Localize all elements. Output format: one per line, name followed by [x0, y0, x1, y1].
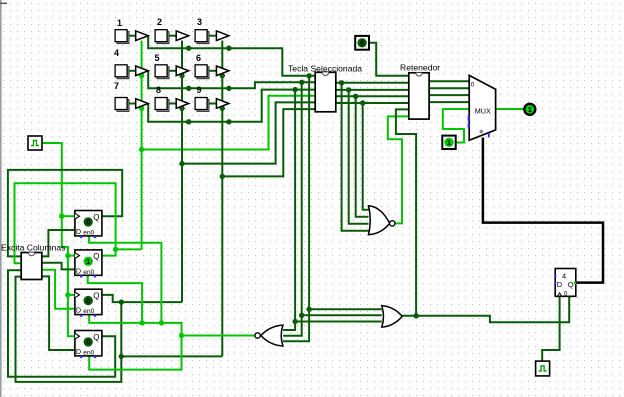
junction col3 tap: [220, 174, 225, 179]
output LED 1: [524, 104, 535, 115]
wire col2 tap to pin5: [182, 102, 315, 163]
register 4-bit: [554, 269, 576, 298]
wire col1 tap to pin4: [142, 96, 316, 150]
wire FF3 Q branch to Excita in4: [16, 277, 122, 382]
button B2: [155, 30, 176, 44]
svg-text:Q: Q: [93, 333, 99, 342]
button B9: [195, 98, 216, 112]
wire clock1 distribution (high): [42, 143, 75, 336]
wire clock to FF1 C: [62, 215, 75, 217]
wire column2 line: [181, 41, 183, 303]
svg-text:0: 0: [86, 296, 90, 305]
button B7: [115, 98, 136, 112]
svg-text:8: 8: [156, 85, 161, 95]
junction V3 tee: [306, 307, 311, 312]
junction OR output: [413, 313, 418, 318]
wire V3 row1 to gates: [283, 76, 309, 342]
MUX floating input stubs (blue): [468, 116, 470, 122]
wire bus2 to NOR2 in3: [349, 90, 369, 224]
wire Excita out2 to FF2 D: [42, 263, 75, 270]
wire NOR2 output to Retenedor load (high): [388, 116, 409, 223]
wire NOR-left output enable net (high): [89, 315, 255, 336]
wire bus4 to NOR2 in1: [363, 103, 369, 210]
junction row3-buffer9: [226, 119, 231, 124]
buffer U9: [216, 99, 229, 109]
wire Excita out1 to FF1 D: [42, 230, 75, 256]
subcircuit Retenedor: [400, 63, 440, 120]
svg-text:Retenedor: Retenedor: [400, 63, 440, 73]
junction FF3 Q branch: [119, 299, 124, 304]
wire enable to FF4 en (high): [89, 336, 181, 370]
svg-text:Q: Q: [93, 292, 99, 301]
wire FF1 Q feedback to Excita in1: [8, 170, 122, 257]
wire register clock from clock2: [542, 296, 559, 361]
wire OR output up to Retenedor pin: [396, 109, 416, 315]
junction bus1 tap: [339, 80, 344, 85]
svg-text:Excita Columnas: Excita Columnas: [1, 243, 65, 253]
wire bus1 to NOR2 in4: [342, 83, 369, 231]
junction clock FF3: [65, 292, 70, 297]
junction enable FF1 branch: [159, 320, 164, 325]
junction col2-buffer8 enable: [179, 106, 184, 111]
button B5: [155, 65, 176, 79]
junction row2-buffer5: [186, 86, 191, 91]
junction row1-buffer2: [186, 46, 191, 51]
wire column3 line: [221, 41, 223, 357]
wire V2 tee to OR gate in2: [302, 314, 382, 316]
svg-text:1: 1: [117, 18, 122, 28]
wire Tecla to Retenedor bus3: [336, 95, 409, 97]
wire pin1 S-route to MUX (high): [443, 109, 469, 143]
buffer U5: [176, 66, 189, 76]
flip-flop FF3: [75, 289, 102, 317]
svg-text:D: D: [76, 306, 81, 315]
junction col1 tap: [139, 147, 144, 152]
svg-text:0: 0: [86, 218, 90, 227]
wire FF2 Q feedback to Excita in2 (high): [15, 183, 116, 263]
buffer U4: [136, 66, 149, 76]
junction col3-buffer6 enable: [220, 73, 225, 78]
wire clock to FF3 C: [68, 294, 75, 296]
wire clock to FF2 C: [68, 255, 75, 257]
flip-flop FF4: [75, 331, 102, 359]
svg-text:3: 3: [197, 17, 202, 27]
wire MUX select bus (black multibit): [483, 138, 603, 283]
junction row3-V1 tap: [292, 87, 297, 92]
svg-text:4: 4: [562, 272, 566, 281]
junction col3 drive: [119, 354, 124, 359]
buffer U8: [176, 99, 189, 109]
MUX enable stub (blue): [488, 133, 490, 137]
button B4: [115, 65, 136, 79]
svg-text:D: D: [76, 266, 81, 275]
wire col3 tap to pin6: [222, 109, 315, 176]
junction row1-buffer3: [226, 46, 231, 51]
wire FF3 Q to column2: [102, 295, 182, 302]
flip-flop FF2: [75, 250, 102, 278]
svg-text:1: 1: [86, 257, 90, 266]
svg-text:Q: Q: [93, 252, 99, 261]
junction col3-buffer9 enable: [220, 106, 225, 111]
junction V1 tee: [292, 319, 297, 324]
flip-flop FF1: [75, 211, 102, 239]
wire row1 net: [148, 36, 315, 76]
wire Tecla to Retenedor bus2: [336, 89, 409, 91]
junction col2 tap: [179, 161, 184, 166]
svg-text:2: 2: [157, 17, 162, 27]
svg-text:0: 0: [360, 39, 364, 48]
button B6: [195, 65, 216, 79]
NOR2 gate (4-input, right): [369, 206, 395, 235]
junction enable FF2 branch: [139, 320, 144, 325]
wire V2 row2 to gates: [283, 82, 302, 335]
svg-text:4: 4: [114, 48, 119, 58]
wire row3 net: [148, 90, 315, 122]
button B3: [195, 30, 216, 44]
subcircuit Tecla Seleccionada: [288, 64, 362, 112]
wire FF4 Q feedback to Excita in3: [8, 270, 115, 377]
wire MUX output to LED (high): [496, 108, 524, 110]
wire Retenedor to MUX d0: [429, 80, 469, 82]
wire enable to FF2 en (high): [88, 275, 142, 323]
svg-text:1: 1: [528, 105, 532, 114]
wire Excita out4 to FF4 D: [42, 276, 75, 350]
wire Retenedor to MUX d2: [429, 94, 469, 96]
junction clock FF1: [59, 214, 64, 219]
wire row2 net: [148, 71, 315, 89]
svg-text:9: 9: [197, 85, 202, 95]
junction row2-buffer6: [226, 86, 231, 91]
junction col2-buffer5 enable: [179, 73, 184, 78]
junction bus2 tap: [346, 87, 351, 92]
input pin 1 (near MUX): [442, 136, 455, 149]
wire V1 tee to OR gate in3: [295, 321, 382, 323]
wire Tecla to Retenedor bus1: [336, 82, 409, 84]
wire Tecla to Retenedor bus4: [336, 102, 409, 104]
canvas left border: [0, 0, 7, 397]
junction row1-V3 tap: [306, 73, 311, 78]
svg-text:0: 0: [86, 338, 90, 347]
wire bus3 to NOR2 in2: [356, 96, 369, 216]
buffer U2: [176, 31, 189, 41]
OR gate (3-input, right): [382, 306, 402, 327]
svg-text:0: 0: [471, 82, 475, 89]
junction col1-buffer7 enable: [139, 106, 144, 111]
svg-text:en0: en0: [83, 308, 94, 315]
NOR-left gate (3-input, pointing left): [255, 325, 283, 346]
svg-text:en0: en0: [83, 229, 94, 236]
svg-text:6: 6: [196, 53, 201, 63]
wire to column3: [121, 355, 222, 357]
junction clock FF2: [65, 253, 70, 258]
svg-text:MUX: MUX: [475, 107, 491, 116]
buffer U6: [216, 66, 229, 76]
wire Excita out3 to FF3 D (high): [42, 270, 75, 309]
buffer U7: [136, 99, 149, 109]
junction V2 tee: [299, 313, 304, 318]
clock symbol 1 (top left): [28, 136, 42, 150]
junction bus4 tap: [360, 100, 365, 105]
clock symbol 2 (bottom right): [536, 361, 550, 376]
junction row2-V2 tap: [299, 80, 304, 85]
junction row3-buffer8: [186, 119, 191, 124]
buffer U1: [136, 31, 149, 41]
svg-text:5: 5: [155, 53, 160, 63]
buffer U3: [216, 31, 229, 41]
svg-text:Q: Q: [93, 213, 99, 222]
svg-text:1: 1: [447, 138, 451, 147]
junction FF2 Q: [113, 247, 118, 252]
button B1: [115, 30, 136, 44]
MUX select mark: [480, 130, 484, 134]
svg-text:D: D: [76, 227, 81, 236]
input pin 0 (top): [355, 36, 369, 50]
button B8: [155, 98, 176, 112]
MUX: [468, 75, 496, 140]
wire input pin0 to Retenedor: [369, 43, 409, 76]
wire V3 tee to OR gate in1: [309, 308, 382, 310]
junction col1-buffer4 enable: [139, 73, 144, 78]
junction enable net at 181.5,335.5: [179, 333, 184, 338]
wire Retenedor to MUX d1: [429, 87, 469, 89]
wire V1 row3 to gates: [283, 90, 295, 330]
svg-text:D: D: [76, 347, 81, 356]
subcircuit Excita Columnas: [1, 243, 65, 280]
svg-text:7: 7: [114, 81, 119, 91]
svg-text:Q: Q: [568, 280, 574, 289]
svg-text:en0: en0: [83, 269, 94, 276]
wire FF2 Q to column1 (high): [116, 248, 142, 250]
wire OR output to register enable: [402, 296, 569, 322]
svg-text:D: D: [557, 280, 563, 289]
wire column1 line (high): [141, 41, 143, 250]
wire Retenedor to MUX d3: [429, 101, 469, 103]
keypad buttons and buffers: [114, 17, 202, 95]
svg-text:en0: en0: [83, 349, 94, 356]
wire enable to FF1 en (high): [89, 236, 161, 323]
junction bus3 tap: [353, 94, 358, 99]
